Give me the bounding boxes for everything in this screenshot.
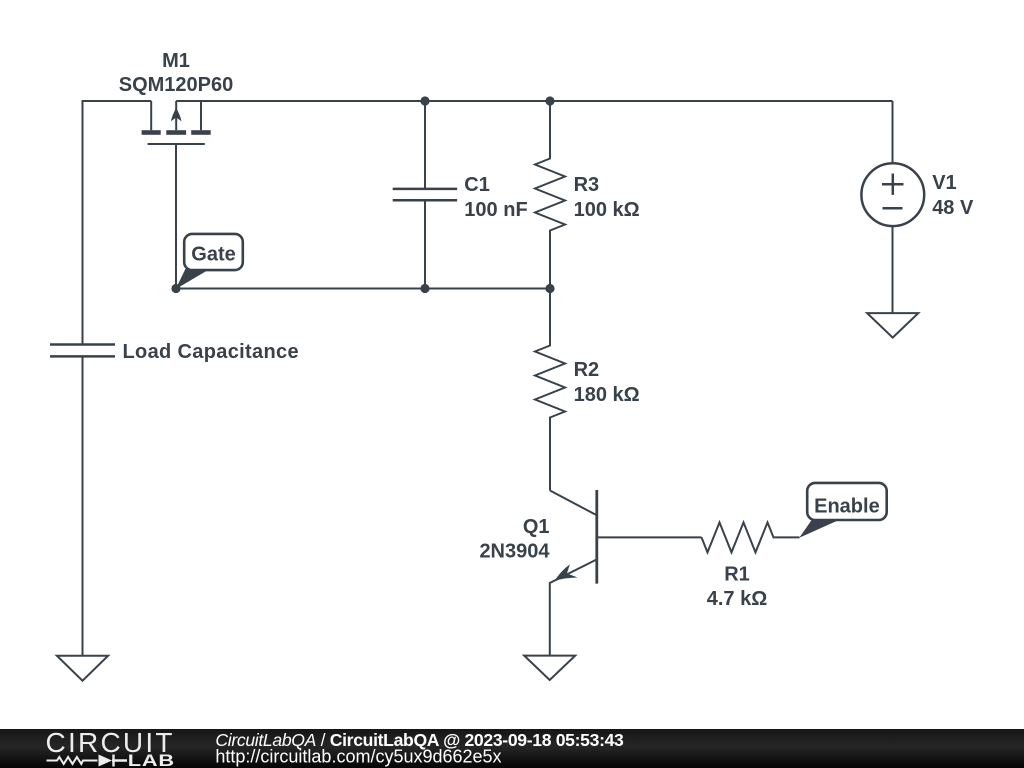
wire top rail left segment [83, 100, 152, 102]
transistor Q1 base lead [597, 536, 702, 538]
svg-text:R3: R3 [574, 174, 600, 196]
svg-text:V1: V1 [932, 172, 956, 194]
mosfet M1 source pad [191, 130, 211, 135]
wire gate vertical [175, 145, 177, 289]
transistor Q1 base bar [595, 490, 598, 584]
node at C1 bottom [420, 284, 429, 293]
svg-text:180 kΩ: 180 kΩ [574, 384, 640, 406]
V1 minus sign [883, 207, 903, 210]
node at gate flag [171, 284, 180, 293]
V1 plus sign [882, 174, 904, 195]
svg-text:C1: C1 [464, 174, 490, 196]
resistor R1 [702, 522, 800, 552]
svg-text:100 nF: 100 nF [464, 199, 527, 221]
svg-text:100 kΩ: 100 kΩ [574, 199, 640, 221]
svg-text:http://circuitlab.com/cy5ux9d6: http://circuitlab.com/cy5ux9d662e5x [215, 747, 501, 767]
gate flag pointer wedge [176, 269, 210, 289]
enable flag box [807, 483, 887, 520]
wire V1 top lead [892, 101, 894, 164]
voltage source V1 circle [861, 163, 924, 226]
wire R2 to Q1 collector diagonal [550, 491, 597, 516]
svg-text:R2: R2 [574, 359, 600, 381]
mosfet M1 drain pad [142, 130, 161, 135]
transistor Q1 emitter arrow [554, 564, 577, 581]
svg-text:R1: R1 [724, 564, 750, 586]
mosfet M1 body arrow [171, 108, 182, 121]
svg-text:2N3904: 2N3904 [479, 540, 550, 562]
mosfet M1 drain stub [150, 101, 152, 130]
mosfet M1 source stub [200, 101, 202, 130]
mosfet M1 body pad [166, 130, 186, 135]
capacitor C1 plates [393, 189, 457, 200]
svg-text:Q1: Q1 [523, 516, 550, 538]
svg-text:M1: M1 [162, 50, 190, 72]
svg-text:48 V: 48 V [932, 197, 974, 219]
node at C1 top [420, 96, 429, 105]
footer logo resistor zigzag [47, 757, 98, 764]
gate flag box [184, 234, 243, 270]
wire load capacitor bottom lead [82, 356, 84, 655]
wire bottom rail (gate node to R2/R3 junction) [176, 288, 550, 290]
svg-text:LAB: LAB [128, 752, 175, 768]
footer logo diode [99, 755, 113, 767]
mosfet M1 gate plate [148, 143, 205, 145]
wire left vertical (top rail to load capacitor) [82, 100, 84, 345]
wire V1 bottom lead [892, 226, 894, 313]
resistor R2 [535, 289, 565, 491]
ground (below V1) [867, 313, 918, 338]
svg-text:Gate: Gate [191, 244, 235, 266]
svg-text:Enable: Enable [814, 496, 880, 518]
load capacitor plates [50, 345, 115, 357]
node at R3/R2 junction [545, 284, 554, 293]
svg-text:SQM120P60: SQM120P60 [119, 74, 234, 96]
wire top rail right segment [176, 100, 892, 102]
capacitor C1 top lead [424, 101, 426, 189]
mosfet M1 body stub [175, 101, 177, 130]
svg-text:Load Capacitance: Load Capacitance [123, 341, 299, 363]
node at R3 top [545, 96, 554, 105]
resistor R3 [535, 101, 565, 289]
enable flag pointer wedge [799, 520, 840, 538]
ground (left, below load capacitance) [57, 656, 108, 681]
footer bar [0, 729, 1024, 768]
ground (below Q1 emitter) [524, 656, 575, 680]
svg-text:4.7 kΩ: 4.7 kΩ [707, 588, 768, 610]
capacitor C1 bottom lead [424, 200, 426, 288]
transistor Q1 emitter diagonal [550, 559, 597, 655]
